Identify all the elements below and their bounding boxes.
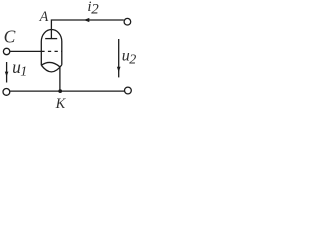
- svg-text:A: A: [39, 9, 49, 25]
- terminal: grid input (C): [3, 48, 9, 54]
- anode plate bar A: [45, 38, 57, 40]
- svg-text:K: K: [55, 96, 67, 112]
- arrowhead u2 (points down): [117, 67, 121, 73]
- voltage arrow u2 line: [118, 39, 120, 77]
- svg-text:C: C: [4, 27, 16, 47]
- wire: grid lead from C terminal to tube: [10, 50, 41, 52]
- current arrow i2 head (points left): [84, 18, 90, 22]
- grid (dashed): [41, 50, 62, 52]
- wire: anode top wire to right terminal: [51, 20, 123, 39]
- junction node K dot: [58, 89, 62, 93]
- terminal: top-right (anode output): [124, 18, 131, 25]
- terminal: bottom-right: [125, 87, 132, 94]
- tube envelope bottom arc: [41, 65, 62, 72]
- voltage arrow u1 line: [6, 62, 8, 83]
- cathode K arc and lead: [41, 62, 60, 91]
- svg-text:1: 1: [20, 65, 27, 80]
- svg-text:2: 2: [129, 53, 136, 68]
- svg-text:2: 2: [91, 2, 99, 18]
- tube U1 envelope (arch top and sides): [41, 30, 62, 66]
- terminal: bottom-left: [3, 89, 10, 96]
- arrowhead u1 (points down): [5, 72, 9, 77]
- wire: bottom return wire: [10, 90, 124, 92]
